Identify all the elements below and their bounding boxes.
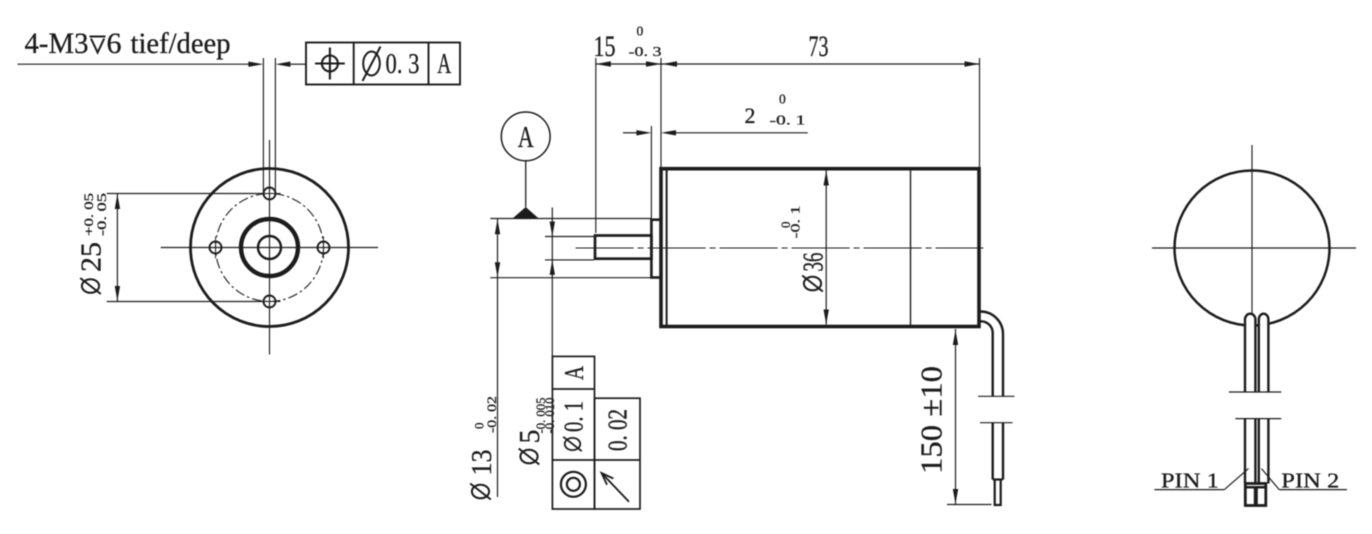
D25 extension line top	[107, 193, 264, 195]
depth symbol (bar over V)	[90, 36, 106, 38]
D25 text diameter symbol	[80, 278, 101, 294]
runout symbol arrow shaft	[602, 473, 630, 502]
D25 dimension line	[116, 194, 118, 302]
rear view horizontal centerline	[1152, 247, 1356, 249]
D5 dim arrow up (below)	[550, 260, 555, 275]
front view horizontal centerline	[161, 247, 378, 249]
thread note 4-M3 depth 6 tief/deep	[25, 27, 89, 60]
150 dimension line	[955, 329, 957, 504]
15-73 dimension line	[596, 63, 980, 65]
15 dim arrow right	[646, 61, 661, 66]
cable break line upper (side view)	[978, 395, 1015, 397]
73 dim arrow right	[965, 61, 980, 66]
D13 dim arrow down	[495, 262, 500, 277]
D36 dim arrow down	[824, 310, 829, 325]
D13 extension line top (datum surface)	[490, 218, 651, 220]
2 dimension line right tail	[676, 132, 808, 134]
lead wire 1 (left tube with round cap)	[1245, 314, 1255, 392]
svg-text:PIN 1: PIN 1	[1161, 469, 1219, 493]
runout tolerance frame box	[595, 398, 641, 509]
svg-text:36: 36	[799, 253, 830, 272]
front flange inner line	[666, 170, 668, 325]
svg-text:A: A	[437, 48, 451, 80]
D5 dimension line	[551, 208, 553, 357]
150 dim arrow up	[953, 330, 958, 345]
D13 extension line bottom	[490, 277, 651, 279]
motor body outline	[661, 169, 979, 327]
mounting hole bottom M3	[264, 296, 276, 308]
connector tip top band	[1245, 486, 1266, 489]
D13 text diameter symbol	[470, 484, 491, 500]
D5 dim arrow down (above)	[550, 222, 555, 237]
D13 dimension line	[497, 219, 499, 498]
PIN 1 underline	[1154, 489, 1224, 491]
mounting hole left M3	[210, 242, 222, 254]
svg-text:-0. 1: -0. 1	[770, 113, 806, 128]
svg-text:0: 0	[637, 24, 644, 39]
2 dim extension line (boss rear)	[650, 126, 652, 219]
concentricity tolerance frame box	[552, 356, 594, 509]
mounting hole right M3	[318, 242, 330, 254]
connector tip divider	[1254, 487, 1258, 505]
svg-text:-0. 3: -0. 3	[629, 44, 662, 59]
datum A balloon circle	[501, 112, 550, 161]
svg-text:-0. 05: -0. 05	[94, 193, 109, 236]
svg-text:15: 15	[594, 30, 616, 63]
D25 extension line bottom	[107, 301, 264, 303]
lead wire 1 lower section	[1244, 419, 1246, 484]
cable break line lower (side view)	[980, 422, 1013, 424]
lead wire 2 lower section	[1258, 419, 1260, 484]
2 dim arrow pointing left	[661, 130, 676, 135]
svg-text:-0. 010: -0. 010	[543, 398, 557, 434]
front view vertical centerline	[269, 140, 271, 355]
cable break line upper (rear view)	[1229, 391, 1282, 393]
svg-text:0. 02: 0. 02	[603, 409, 633, 451]
svg-text:0. 3: 0. 3	[386, 48, 420, 80]
position symbol (circle-cross)	[322, 56, 338, 72]
runout frame divider	[595, 459, 641, 461]
diameter symbol in tolerance frame	[363, 52, 380, 76]
svg-text:150 ±10: 150 ±10	[914, 366, 949, 474]
svg-text:tief/deep: tief/deep	[131, 27, 231, 60]
front boss outline	[651, 220, 661, 278]
svg-text:0: 0	[779, 92, 786, 107]
lead wire bend outer	[981, 312, 1004, 397]
leader line to position tolerance frame	[290, 63, 306, 65]
15/73 dim extension line (front face)	[660, 58, 662, 167]
svg-text:2: 2	[745, 103, 756, 128]
svg-text:-0. 02: -0. 02	[484, 396, 499, 433]
runout symbol open arrowhead	[602, 473, 614, 485]
concentricity frame divider 1	[552, 388, 594, 390]
shaft outline	[595, 236, 651, 259]
lead wire lower section right	[1002, 423, 1004, 480]
2 dim arrow pointing right	[636, 130, 651, 135]
concentricity frame divider 2	[552, 459, 594, 461]
2 dimension line left tail	[623, 132, 637, 134]
hole projection line right	[274, 58, 276, 192]
lead wire stripped tip	[995, 480, 1001, 506]
svg-text:A: A	[518, 119, 534, 154]
leader arrow right	[248, 62, 263, 67]
lead wire bend inner	[981, 321, 993, 396]
rear view vertical centerline	[1251, 145, 1253, 317]
svg-text:13: 13	[467, 450, 498, 476]
D36 dim arrow up	[824, 171, 829, 186]
lead wire shoulder step	[993, 479, 1003, 481]
position tolerance frame divider 1	[353, 43, 355, 85]
concentricity frame diameter symbol	[563, 437, 582, 451]
concentricity symbol (two circles)	[561, 472, 586, 497]
D25 dimension arrow up	[115, 194, 120, 209]
PIN 1 leader	[1224, 469, 1248, 490]
svg-text:PIN 2: PIN 2	[1281, 469, 1339, 493]
front view outer circle (motor body D36)	[191, 169, 349, 327]
PIN 2 leader	[1262, 469, 1280, 490]
rear view circle	[1175, 171, 1330, 326]
15 dim arrow left	[596, 61, 611, 66]
D36 text diameter symbol	[802, 276, 823, 292]
73 dim arrow left	[662, 61, 677, 66]
D36 dimension line	[825, 171, 827, 325]
15 dim extension line (shaft tip)	[595, 58, 597, 233]
position tolerance frame box	[306, 43, 460, 85]
side view centerline	[576, 247, 984, 249]
svg-text:A: A	[559, 366, 589, 380]
rear cap joint line	[910, 170, 912, 325]
svg-text:73: 73	[809, 30, 829, 63]
svg-text:4-M3: 4-M3	[25, 27, 89, 60]
PIN 2 underline	[1279, 489, 1347, 491]
mounting hole top M3	[264, 188, 276, 200]
150 dim arrow down	[953, 489, 958, 504]
svg-text:25: 25	[77, 242, 108, 272]
hole projection line left	[262, 58, 264, 192]
lead wire 2 (right tube with round cap)	[1259, 314, 1269, 392]
73 dim extension line (rear face)	[979, 58, 981, 167]
D25 dimension arrow down	[115, 286, 120, 301]
cable break line lower (rear view)	[1235, 418, 1281, 420]
svg-text:0. 1: 0. 1	[559, 401, 589, 432]
D13 dim arrow up	[495, 219, 500, 234]
front boss circle D13	[241, 219, 298, 276]
svg-text:-0. 1: -0. 1	[788, 206, 803, 239]
shaft circle D5	[258, 236, 281, 259]
position tolerance frame divider 2	[428, 43, 430, 85]
svg-text:6: 6	[107, 27, 122, 60]
D5 extension line bottom	[545, 259, 594, 261]
lead wire lower section left	[992, 423, 994, 480]
connector tip outline	[1245, 484, 1266, 506]
D5 extension line top	[545, 236, 594, 238]
leader arrow left from tolerance frame	[275, 62, 290, 67]
datum A filled triangle	[513, 207, 539, 218]
datum A leader line	[525, 161, 527, 207]
D5 text diameter symbol	[519, 449, 540, 465]
bolt circle D25 (dash-dot)	[216, 194, 324, 302]
leader line from thread note	[18, 63, 249, 65]
150 dim extension line at wire tip	[947, 504, 992, 506]
